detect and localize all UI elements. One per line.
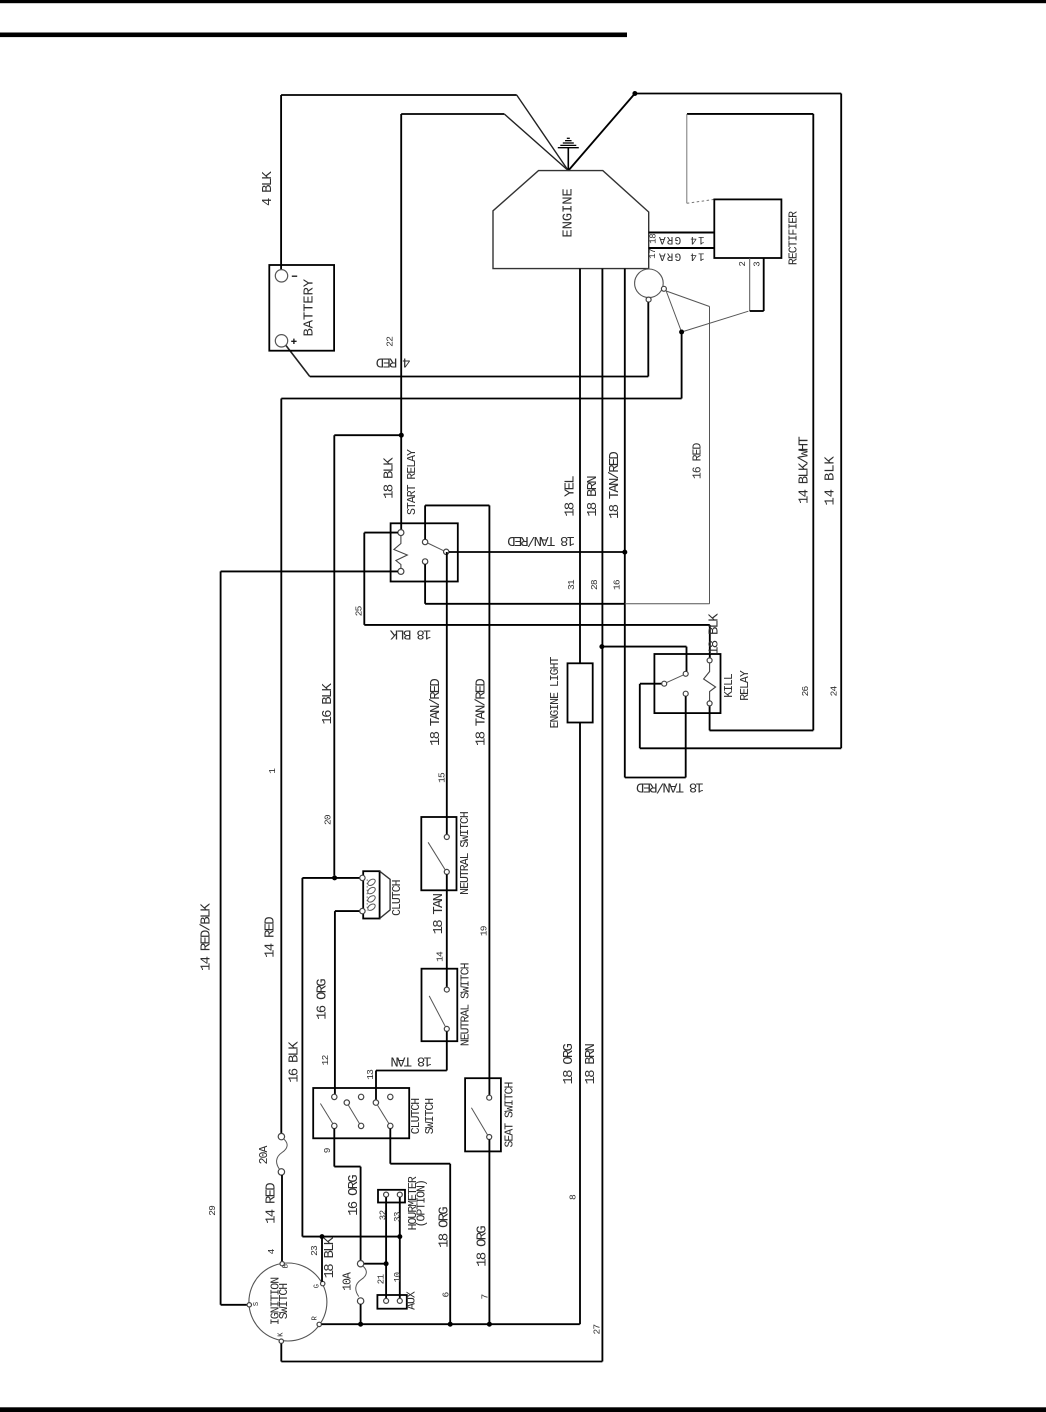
svg-text:18 BLK: 18 BLK <box>707 613 723 655</box>
svg-text:NEUTRAL SWITCH: NEUTRAL SWITCH <box>459 812 472 895</box>
svg-text:26: 26 <box>800 686 811 697</box>
svg-text:KILL: KILL <box>723 673 736 698</box>
svg-text:20A: 20A <box>258 1146 271 1165</box>
svg-text:S: S <box>253 1302 261 1306</box>
svg-text:8: 8 <box>568 1194 579 1200</box>
svg-text:24: 24 <box>829 686 840 697</box>
svg-text:25: 25 <box>353 605 364 616</box>
svg-text:4: 4 <box>266 1248 277 1254</box>
svg-text:ENGINE LIGHT: ENGINE LIGHT <box>549 657 562 729</box>
svg-text:14: 14 <box>435 951 446 962</box>
svg-text:1: 1 <box>267 768 278 774</box>
svg-text:SWITCH: SWITCH <box>424 1099 437 1135</box>
svg-text:31: 31 <box>566 579 577 590</box>
svg-text:20: 20 <box>322 814 333 825</box>
svg-text:32: 32 <box>378 1210 388 1220</box>
svg-text:33: 33 <box>393 1212 403 1222</box>
svg-text:13: 13 <box>365 1069 376 1080</box>
svg-text:10: 10 <box>393 1272 403 1282</box>
svg-text:22: 22 <box>384 336 395 347</box>
svg-text:18 TAN/RED: 18 TAN/RED <box>428 679 444 746</box>
svg-text:14 RED: 14 RED <box>262 917 278 958</box>
svg-text:16: 16 <box>612 579 623 590</box>
svg-text:7: 7 <box>480 1294 491 1299</box>
svg-text:18 TAN/RED: 18 TAN/RED <box>607 452 623 519</box>
svg-text:16 ORG: 16 ORG <box>315 979 331 1020</box>
svg-text:17: 17 <box>648 249 658 259</box>
svg-text:21: 21 <box>376 1274 386 1284</box>
svg-text:G: G <box>314 1284 322 1288</box>
svg-text:18: 18 <box>649 234 659 244</box>
svg-text:3: 3 <box>752 262 762 267</box>
svg-text:18 TAN/RED: 18 TAN/RED <box>508 532 575 548</box>
svg-text:CLUTCH: CLUTCH <box>410 1099 423 1135</box>
svg-text:NEUTRAL SWITCH: NEUTRAL SWITCH <box>459 963 472 1046</box>
svg-text:12: 12 <box>320 1054 331 1065</box>
svg-text:18 TAN: 18 TAN <box>391 1053 432 1069</box>
svg-text:SEAT SWITCH: SEAT SWITCH <box>504 1082 517 1147</box>
svg-text:START RELAY: START RELAY <box>406 449 419 515</box>
svg-text:18 TAN/RED: 18 TAN/RED <box>474 679 490 746</box>
svg-text:18 TAN: 18 TAN <box>431 893 447 934</box>
svg-text:RECTIFIER: RECTIFIER <box>788 211 801 265</box>
svg-text:18 ORG: 18 ORG <box>475 1226 491 1267</box>
svg-text:14 GRA: 14 GRA <box>658 233 705 245</box>
svg-text:15: 15 <box>437 772 448 783</box>
svg-text:9: 9 <box>322 1147 333 1153</box>
svg-text:2: 2 <box>738 261 748 266</box>
svg-text:18 BRN: 18 BRN <box>585 476 601 517</box>
svg-text:RELAY: RELAY <box>739 670 752 701</box>
svg-text:18 BLK: 18 BLK <box>382 457 398 499</box>
svg-text:18 BLK: 18 BLK <box>389 625 431 641</box>
svg-text:B: B <box>282 1264 290 1268</box>
svg-text:23: 23 <box>309 1245 320 1256</box>
svg-text:18 BLK: 18 BLK <box>322 1236 338 1278</box>
svg-text:16 BLK: 16 BLK <box>286 1041 302 1083</box>
svg-text:R: R <box>312 1315 320 1320</box>
svg-text:10A: 10A <box>342 1272 355 1291</box>
svg-text:ENGINE: ENGINE <box>560 188 576 237</box>
svg-text:(OPTION): (OPTION) <box>416 1180 429 1227</box>
svg-text:CLUTCH: CLUTCH <box>391 880 404 916</box>
svg-text:4 RED: 4 RED <box>376 353 410 369</box>
svg-text:18 ORG: 18 ORG <box>561 1043 577 1084</box>
svg-text:18 YEL: 18 YEL <box>563 476 579 517</box>
svg-text:AUX: AUX <box>405 1291 418 1310</box>
svg-text:14 RED: 14 RED <box>264 1183 280 1224</box>
svg-text:27: 27 <box>592 1325 603 1335</box>
svg-text:14 BLK/WHT: 14 BLK/WHT <box>797 437 813 504</box>
svg-text:14 RED/BLK: 14 RED/BLK <box>199 903 215 971</box>
svg-text:19: 19 <box>479 925 490 936</box>
svg-text:18 BRN: 18 BRN <box>583 1043 599 1084</box>
svg-text:BATTERY: BATTERY <box>302 278 318 336</box>
svg-text:16 BLK: 16 BLK <box>320 682 336 724</box>
svg-text:4 BLK: 4 BLK <box>260 171 276 206</box>
svg-text:28: 28 <box>589 579 600 590</box>
svg-text:16 ORG: 16 ORG <box>346 1175 362 1216</box>
svg-text:16 RED: 16 RED <box>692 443 705 480</box>
svg-text:14 BLK: 14 BLK <box>823 456 839 506</box>
svg-text:29: 29 <box>207 1205 218 1216</box>
svg-text:SWITCH: SWITCH <box>278 1284 291 1320</box>
svg-text:K: K <box>278 1332 286 1337</box>
svg-text:18 TAN/RED: 18 TAN/RED <box>636 778 703 794</box>
svg-text:18 ORG: 18 ORG <box>437 1207 453 1248</box>
svg-text:14 GRA: 14 GRA <box>658 249 705 261</box>
